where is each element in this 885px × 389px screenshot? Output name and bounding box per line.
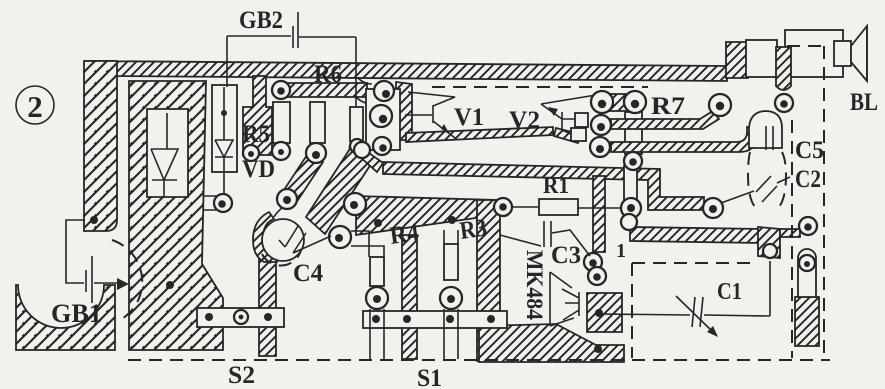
svg-text:2: 2 xyxy=(27,89,43,124)
svg-text:C3: C3 xyxy=(551,242,581,269)
svg-text:R6: R6 xyxy=(314,61,342,88)
svg-text:VD: VD xyxy=(242,156,275,183)
svg-text:MK484: MK484 xyxy=(522,250,547,320)
svg-text:GB1: GB1 xyxy=(51,299,102,328)
svg-text:R7: R7 xyxy=(651,93,685,120)
svg-text:R5: R5 xyxy=(242,121,270,148)
svg-text:S2: S2 xyxy=(228,362,255,389)
svg-text:V2: V2 xyxy=(509,107,540,134)
svg-text:V1: V1 xyxy=(454,104,484,131)
svg-text:R3: R3 xyxy=(458,214,488,244)
svg-text:1: 1 xyxy=(616,240,626,262)
svg-text:C4: C4 xyxy=(293,260,323,287)
svg-text:GB2: GB2 xyxy=(239,7,283,34)
svg-text:C2: C2 xyxy=(795,166,821,193)
svg-text:BL: BL xyxy=(850,89,878,116)
svg-text:C1: C1 xyxy=(717,279,742,305)
svg-text:C5: C5 xyxy=(795,137,824,164)
svg-text:R4: R4 xyxy=(388,219,421,250)
svg-text:S1: S1 xyxy=(417,365,442,389)
svg-text:R1: R1 xyxy=(543,173,569,198)
